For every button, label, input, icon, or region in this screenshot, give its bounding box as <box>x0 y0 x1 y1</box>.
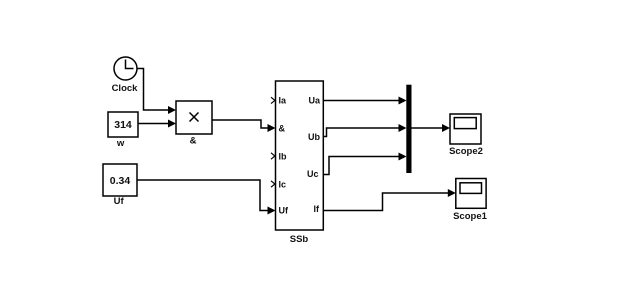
svg-text:Ub: Ub <box>308 132 320 142</box>
svg-text:Uc: Uc <box>307 169 319 179</box>
svg-text:Ib: Ib <box>279 152 288 162</box>
svg-text:Scope1: Scope1 <box>453 211 488 222</box>
svg-text:Ua: Ua <box>308 96 320 106</box>
svg-text:0.34: 0.34 <box>110 175 131 187</box>
svg-text:Clock: Clock <box>112 83 139 94</box>
svg-text:Uf: Uf <box>114 196 125 207</box>
svg-text:Ia: Ia <box>279 96 288 106</box>
svg-text:SSb: SSb <box>290 234 309 245</box>
svg-text:w: w <box>116 138 125 149</box>
svg-text:&: & <box>190 136 197 147</box>
svg-text:314: 314 <box>114 119 132 131</box>
svg-text:&: & <box>279 124 286 134</box>
svg-text:Uf: Uf <box>279 206 289 216</box>
svg-text:Ic: Ic <box>279 180 287 190</box>
svg-text:Scope2: Scope2 <box>449 146 483 157</box>
